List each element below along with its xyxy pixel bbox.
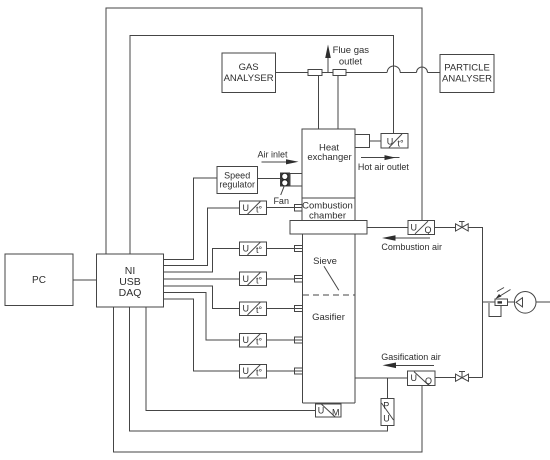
svg-text:Q: Q [425, 376, 432, 386]
wire: P/U sensor return to DAQ bottom [130, 307, 388, 431]
thermocouple T4 (U/t) [240, 302, 267, 316]
wire: T6 to port [267, 370, 295, 372]
wire: inner loop (DAQ top to heat-exchanger U/t sensor) [130, 36, 394, 255]
combustion chamber walls [302, 198, 355, 222]
NI USB DAQ box U1 [97, 254, 164, 307]
thermocouple T3 (U/t) [240, 272, 267, 286]
svg-text:P: P [383, 401, 389, 411]
wire: pocket to U/t sensor [369, 140, 381, 142]
valve V2 (gasification air) [456, 372, 469, 382]
pressure regulator [495, 288, 511, 306]
arrow: hot air outlet [361, 155, 400, 160]
sensor U/Q gasification air [408, 371, 435, 386]
svg-text:Fan: Fan [273, 196, 289, 206]
wire: sampling line to particle analyser [428, 72, 441, 74]
svg-text:U: U [243, 244, 250, 254]
wire: DAQ to thermocouple T3 [164, 278, 240, 280]
wire: DAQ to thermocouple T5 [164, 293, 240, 340]
svg-text:U: U [243, 304, 250, 314]
sensor U/t heat exchanger [381, 134, 408, 149]
thermocouple T2 (U/t) [240, 242, 267, 256]
stub: gasifier port 3 [295, 276, 303, 282]
wire: valve V2 to U/Q gasification [435, 377, 456, 379]
GAS ANALYSER box [222, 53, 276, 93]
svg-text:Combustion air: Combustion air [381, 242, 442, 252]
wire: U/Q to gasifier [355, 377, 408, 379]
wire: sampling line segment [400, 72, 416, 74]
svg-text:U: U [243, 335, 250, 345]
fan duct to heat exchanger [290, 173, 302, 186]
flange: chimney port left [308, 69, 322, 75]
sensor U/M level transducer [316, 404, 342, 418]
wire: T4 to port [267, 308, 295, 310]
thermocouple T6 (U/t) [240, 364, 267, 378]
svg-text:t°: t° [398, 139, 405, 149]
wire: DAQ to speed regulator [164, 178, 218, 259]
svg-text:GAS: GAS [239, 62, 259, 73]
svg-text:Sieve: Sieve [313, 256, 337, 267]
wire: blower suction line [536, 301, 550, 303]
fan (two rotors) [280, 173, 290, 187]
svg-text:regulator: regulator [219, 180, 255, 190]
valve V1 (combustion air) [456, 222, 469, 232]
pipe: chimney left wall [318, 76, 320, 130]
svg-text:U: U [243, 274, 250, 284]
PARTICLE ANALYSER box [440, 55, 494, 93]
wire: T1 to port [267, 207, 295, 209]
svg-text:U: U [243, 203, 250, 213]
svg-text:PC: PC [32, 275, 46, 286]
flange: combustion chamber / gasifier joint [290, 220, 367, 234]
svg-text:t°: t° [256, 368, 263, 378]
wire: DAQ to thermocouple T2 [164, 249, 240, 273]
wire hop over outer loop [417, 67, 428, 72]
heat exchanger vessel [302, 129, 355, 198]
wire: flange to combustion-air flow sensor [367, 227, 408, 229]
flange: chimney port right [333, 69, 346, 75]
thermocouple T1 (U/t) [240, 201, 267, 215]
sieve dashed divider [303, 294, 355, 296]
wire: T5 to port [267, 339, 295, 341]
svg-text:M: M [332, 408, 340, 418]
wire: outer return loop (gasification U/Q bottom to DAQ bottom) [114, 307, 423, 452]
wire: U/Q to valve V1 [435, 227, 456, 229]
arrow: gasification air [383, 363, 434, 369]
svg-text:ANALYSER: ANALYSER [442, 74, 492, 85]
svg-text:PARTICLE: PARTICLE [444, 63, 490, 74]
wire: T2 to port [267, 248, 295, 250]
blower / air supply fan [514, 292, 536, 314]
stub: combustion chamber thermocouple port [295, 205, 303, 211]
svg-text:U: U [243, 366, 250, 376]
wire: valve V1 to air manifold [468, 228, 483, 378]
svg-text:exchanger: exchanger [307, 152, 351, 163]
wire: outer DAQ loop (DAQ top to combustion U/Q) [106, 8, 422, 254]
wire: T3 to port [267, 278, 295, 280]
stub: gasifier port 2 [295, 245, 303, 251]
svg-text:t°: t° [256, 305, 263, 315]
gasifier vessel walls [302, 234, 355, 403]
svg-text:U: U [411, 222, 418, 232]
svg-text:Flue gas: Flue gas [333, 45, 370, 56]
speed regulator box [217, 167, 258, 194]
leader: fan label [281, 187, 284, 195]
wire: speed regulator to fan [258, 178, 281, 180]
svg-text:U: U [383, 414, 390, 424]
svg-text:ANALYSER: ANALYSER [224, 73, 274, 84]
svg-text:outlet: outlet [339, 56, 363, 67]
stub: heat exchanger sensor pocket [355, 134, 369, 147]
pipe: chimney right wall [337, 76, 339, 130]
thermocouple T5 (U/t) [240, 333, 267, 347]
wire: manifold to regulator [483, 301, 495, 303]
svg-text:U: U [318, 406, 325, 416]
wire hop over inner loop [387, 66, 400, 73]
svg-text:t°: t° [256, 245, 263, 255]
sensor P/U pressure transducer [381, 399, 394, 426]
label: Flue gas outlet [333, 45, 370, 68]
PC box [5, 254, 73, 306]
svg-text:Gasifier: Gasifier [312, 312, 345, 323]
svg-text:Gasification air: Gasification air [381, 352, 441, 362]
svg-text:t°: t° [256, 275, 263, 285]
svg-text:U: U [387, 137, 394, 147]
wire: regulator to blower [508, 301, 516, 303]
arrow: flue gas outlet [325, 45, 331, 73]
svg-text:Hot air outlet: Hot air outlet [358, 162, 410, 172]
wire: U/M sensor to DAQ bottom [146, 307, 316, 411]
svg-text:Air inlet: Air inlet [257, 149, 288, 159]
wire: DAQ to thermocouple T4 [164, 286, 240, 308]
label: Sieve with leader [313, 256, 339, 290]
arrow: combustion air [382, 235, 430, 241]
wire: PC to DAQ [73, 279, 97, 281]
wire: DAQ to thermocouple T6 [164, 299, 240, 371]
stub: gasifier port 4 [295, 305, 303, 311]
sensor U/Q combustion air [408, 221, 435, 235]
svg-text:U: U [411, 373, 418, 383]
drain bracket under regulator [489, 303, 501, 317]
wire: tap to P/U pressure sensor [387, 378, 389, 399]
wire: DAQ to thermocouple T1 [164, 208, 240, 266]
stub: gasifier port 6 [295, 368, 303, 374]
stub: gasifier port 5 [295, 337, 303, 343]
wire: manifold to valve V2 [469, 377, 483, 379]
wire: gas analyser sampling line [276, 72, 388, 74]
svg-text:DAQ: DAQ [119, 287, 142, 299]
svg-text:Q: Q [425, 225, 432, 235]
svg-text:t°: t° [256, 337, 263, 347]
arrow: air inlet [262, 159, 299, 164]
svg-text:t°: t° [256, 205, 263, 215]
